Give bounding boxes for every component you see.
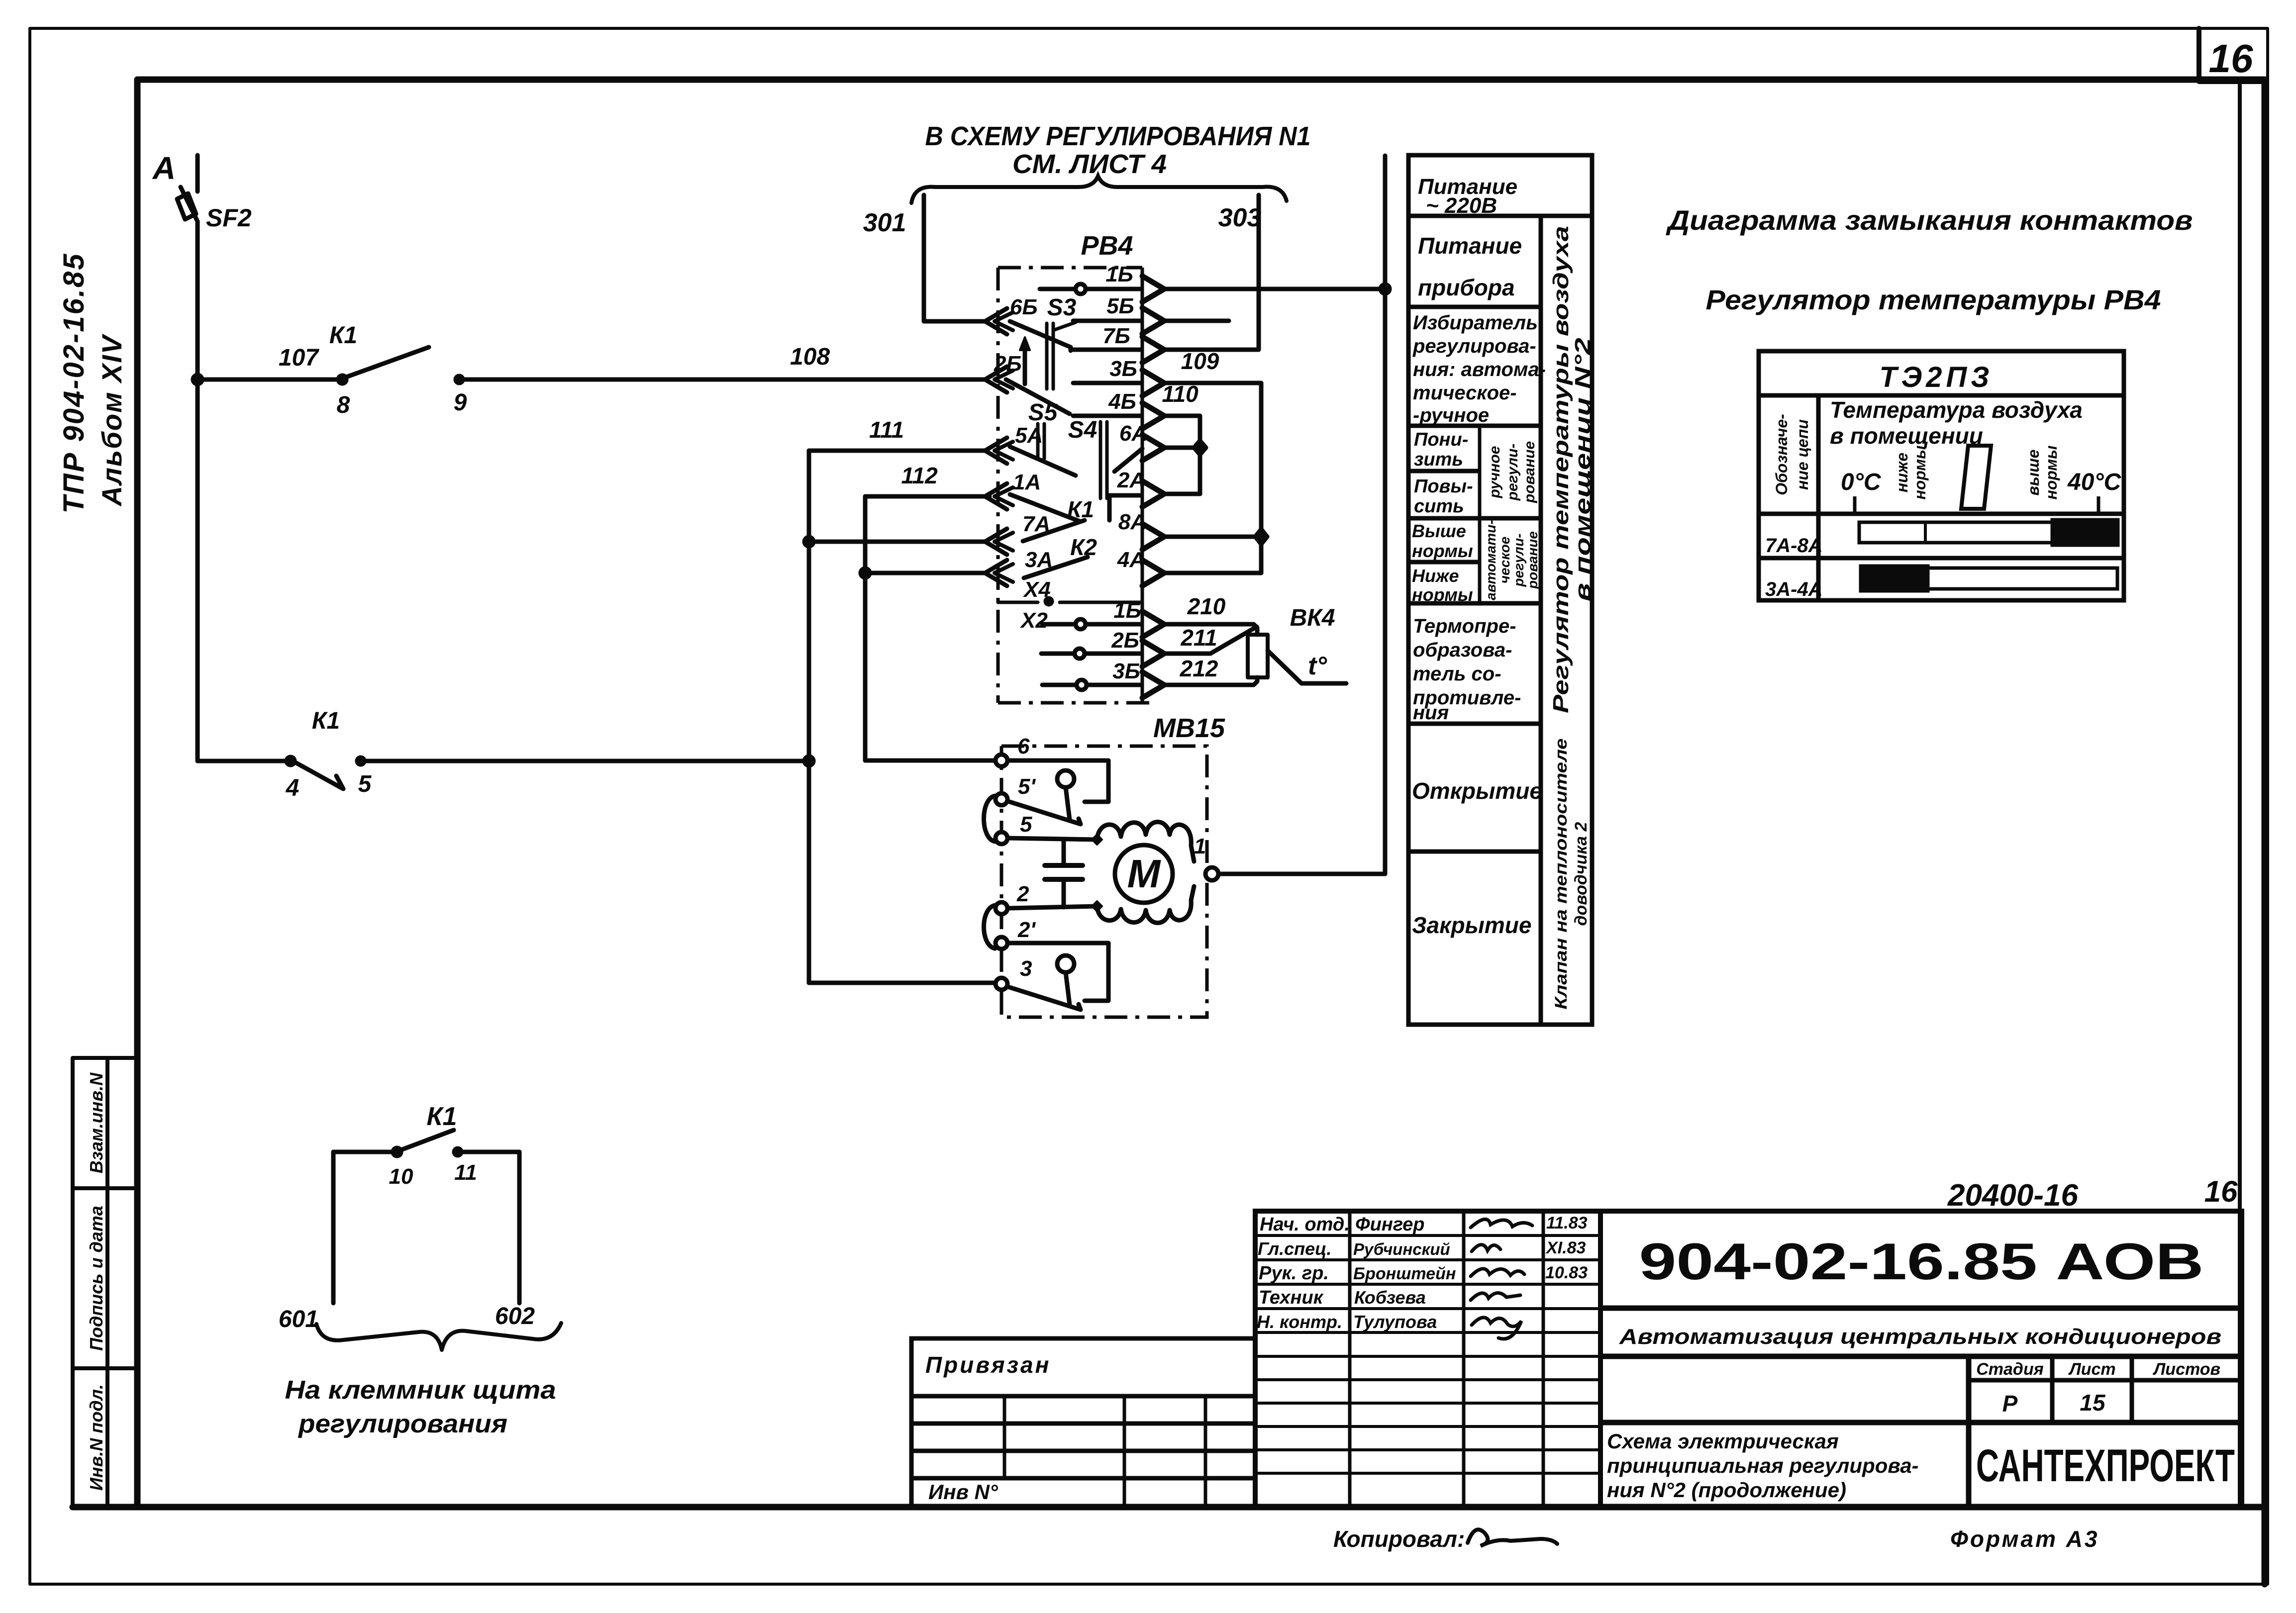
svg-text:ниже: ниже [1893, 453, 1911, 492]
svg-text:Н. контр.: Н. контр. [1257, 1312, 1342, 1332]
svg-text:301: 301 [863, 208, 906, 237]
svg-text:Тулупова: Тулупова [1353, 1312, 1437, 1332]
wire to motor terminal 3 [809, 981, 995, 985]
stub wire from pin 5Б [1162, 319, 1229, 323]
contact 7А-8А closure bar [1859, 522, 2053, 543]
node: bus A / wire 7А [804, 537, 813, 546]
svg-text:Автоматизация центральных кон: Автоматизация центральных кондиционеров [1619, 1325, 2221, 1349]
node: 109 bus / wire 8А [1255, 529, 1267, 544]
brace under header [911, 176, 1287, 203]
svg-text:Листов: Листов [2152, 1360, 2220, 1379]
wire 3А [865, 571, 987, 575]
switch S4 link bars [1099, 422, 1102, 498]
wire 108 [459, 378, 987, 382]
terminal 2' [996, 937, 1007, 949]
svg-text:рование: рование [1521, 441, 1538, 503]
svg-text:8: 8 [337, 392, 350, 418]
svg-text:1Б: 1Б [1105, 262, 1133, 286]
terminal 3 [996, 978, 1007, 990]
pin 8А [1142, 524, 1164, 550]
breaker SF2 [181, 187, 198, 221]
pin 6Б [985, 308, 1007, 334]
limit switch upper (open-valve) [1007, 760, 1108, 802]
limit switch lower arm [1008, 987, 1081, 1010]
svg-text:регулирования: регулирования [298, 1410, 507, 1438]
svg-text:3А: 3А [1025, 548, 1053, 572]
switch S5 link bars [1036, 424, 1040, 459]
svg-text:Копировал:: Копировал: [1333, 1526, 1465, 1552]
node: bus A / wire 4-5 [804, 757, 813, 765]
svg-text:автомати-: автомати- [1483, 520, 1498, 600]
switch S3 link bars [1045, 323, 1049, 389]
svg-text:11: 11 [454, 1160, 477, 1185]
wire 110 from pin 4Б [1162, 416, 1200, 494]
node A marker [196, 155, 200, 191]
svg-text:20400-16: 20400-16 [1947, 1178, 2079, 1213]
wire 303 vertical [1257, 195, 1261, 350]
svg-text:3Б: 3Б [1109, 357, 1137, 381]
wire 301 vertical [922, 195, 926, 321]
svg-text:ние цепи: ние цепи [1794, 419, 1811, 490]
svg-text:3Б: 3Б [1112, 659, 1140, 683]
wire 7А [809, 540, 987, 544]
contact 3А-4А closure bar [1861, 567, 1927, 590]
switch S3 arm (2Б-4Б) [1006, 380, 1070, 414]
svg-text:Фингер: Фингер [1355, 1214, 1425, 1235]
РВ4 enclosure (dash-dot box) [998, 268, 1149, 703]
svg-text:Техник: Техник [1259, 1287, 1324, 1308]
svg-text:212: 212 [1180, 656, 1218, 681]
svg-text:ручное: ручное [1487, 446, 1503, 499]
svg-text:9: 9 [454, 389, 467, 416]
svg-text:Температура воздуха: Температура воздуха [1830, 397, 2083, 423]
svg-text:К2: К2 [1070, 534, 1097, 560]
svg-text:тель со-: тель со- [1413, 663, 1501, 685]
svg-text:Регулятор температуры воздуха: Регулятор температуры воздуха [1549, 226, 1573, 713]
svg-text:10.83: 10.83 [1545, 1263, 1588, 1282]
bus A vertical (wires 111/7А/3) [807, 451, 811, 983]
svg-text:1: 1 [1194, 834, 1206, 858]
svg-text:210: 210 [1187, 593, 1226, 619]
svg-text:нормы: нормы [2042, 446, 2060, 500]
pin X2-2Б [1041, 652, 1074, 656]
svg-text:112: 112 [901, 463, 938, 488]
node: 110 bus / wire 6А [1194, 441, 1206, 455]
0°С tick [1853, 496, 1857, 512]
signature table columns [1348, 1211, 1352, 1507]
svg-text:принципиальная регулирова-: принципиальная регулирова- [1607, 1454, 1919, 1477]
wire 602 riser [517, 1152, 522, 1303]
svg-text:S4: S4 [1068, 417, 1098, 443]
thermistor BK4 [1248, 635, 1268, 677]
svg-text:Нач. отд.: Нач. отд. [1260, 1214, 1350, 1235]
svg-text:5': 5' [1018, 774, 1036, 799]
signal table (right side) [1408, 155, 1592, 1025]
thermistor t° lead [1268, 651, 1346, 683]
wire to contact [333, 1150, 393, 1154]
pin X2-3Б [1042, 683, 1076, 687]
svg-text:зить: зить [1414, 449, 1463, 470]
svg-text:нормы: нормы [1412, 541, 1473, 561]
svg-text:7А: 7А [1022, 512, 1050, 536]
wire 107 [198, 378, 338, 382]
svg-text:К1: К1 [329, 322, 357, 349]
wire 8А [1162, 535, 1261, 539]
svg-text:2А: 2А [1117, 468, 1145, 492]
setpoint parallelogram [1961, 446, 1991, 509]
switch S5 arm (5А) [1010, 447, 1076, 475]
pin 1Б (top) [1040, 287, 1075, 291]
svg-text:М: М [1127, 852, 1162, 896]
wire 112 to pin 1А [865, 494, 990, 499]
svg-text:На клеммник щита: На клеммник щита [285, 1376, 556, 1405]
terminal 5 [996, 832, 1007, 844]
svg-text:САНТЕХПРОЕКТ: САНТЕХПРОЕКТ [1976, 1440, 2235, 1491]
switch arm (1А-2А) [1010, 494, 1080, 521]
svg-text:Взам.инв.N: Взам.инв.N [86, 1072, 106, 1174]
pin 3А [985, 560, 1007, 586]
svg-text:~ 220В: ~ 220В [1426, 193, 1497, 218]
svg-text:4А: 4А [1117, 548, 1145, 572]
svg-text:в помещении: в помещении [1830, 423, 1983, 449]
svg-text:К1: К1 [1067, 496, 1094, 522]
svg-text:7Б: 7Б [1102, 324, 1130, 348]
pin X2-1Б [1042, 622, 1075, 627]
svg-text:прибора: прибора [1418, 275, 1515, 300]
wire to motor terminal 6 [865, 759, 996, 763]
wire 210 [1164, 624, 1257, 635]
svg-text:ния N°2 (продолжение): ния N°2 (продолжение) [1607, 1478, 1846, 1502]
wire 2А [1162, 492, 1200, 496]
svg-text:S3: S3 [1047, 294, 1077, 321]
svg-text:Повы-: Повы- [1414, 476, 1473, 497]
svg-text:Ниже: Ниже [1412, 566, 1459, 586]
svg-text:К1: К1 [427, 1102, 457, 1131]
inner right margin line [2238, 82, 2242, 1507]
svg-text:S5: S5 [1028, 399, 1058, 426]
svg-text:регули-: регули- [1511, 533, 1526, 587]
terminal 6 [996, 755, 1007, 766]
svg-text:Регулятор температуры РВ4: Регулятор температуры РВ4 [1706, 284, 2161, 315]
svg-text:8А: 8А [1118, 510, 1146, 534]
svg-text:ния: автома-: ния: автома- [1413, 359, 1546, 380]
pin 2Б [985, 367, 1007, 392]
svg-text:доводчика 2: доводчика 2 [1572, 822, 1591, 926]
closure diagram table ТЭ2ПЗ [1759, 351, 2124, 600]
svg-text:Лист: Лист [2068, 1360, 2115, 1379]
svg-text:-ручное: -ручное [1413, 404, 1489, 426]
winding tap diamonds [1092, 835, 1102, 845]
svg-text:Гл.спец.: Гл.спец. [1258, 1238, 1331, 1259]
svg-text:Кобзева: Кобзева [1354, 1287, 1426, 1308]
wire 6А [1162, 446, 1200, 450]
pin 7А [985, 529, 1007, 555]
РВ4 connector right spine [1141, 268, 1144, 703]
limit switch upper arm [1008, 801, 1081, 824]
svg-text:нормы: нормы [1412, 584, 1473, 605]
wire 111 to pin 5А [809, 449, 987, 453]
svg-text:10: 10 [389, 1164, 413, 1189]
pin 2А [1142, 481, 1164, 507]
svg-text:тическое-: тическое- [1413, 382, 1517, 404]
svg-text:регулирова-: регулирова- [1412, 335, 1536, 357]
svg-text:3: 3 [1020, 956, 1032, 981]
wire 212 [1164, 677, 1257, 685]
pin 4Б [1073, 414, 1140, 418]
wire from motor terminal 1 to 220V bus [1218, 872, 1385, 876]
pin 7Б [1071, 348, 1140, 352]
signature table rows [1255, 1234, 1600, 1237]
selector direction arrow [1023, 346, 1027, 384]
svg-text:ния: ния [1413, 702, 1449, 724]
svg-text:2Б: 2Б [994, 352, 1022, 376]
wire from contact 5 to bus A [361, 759, 809, 763]
svg-text:В СХЕМУ РЕГУЛИРОВАНИЯ N1: В СХЕМУ РЕГУЛИРОВАНИЯ N1 [925, 121, 1311, 151]
switch S4 arm (6А) [1114, 449, 1142, 472]
svg-text:2': 2' [1017, 918, 1036, 942]
motor M winding top [1097, 822, 1194, 862]
title block [1255, 1211, 2242, 1507]
svg-text:Закрытие: Закрытие [1412, 912, 1531, 938]
svg-text:МВ15: МВ15 [1153, 713, 1225, 743]
pin 5Б [1073, 319, 1140, 323]
pin 1А [985, 483, 1007, 509]
svg-text:15: 15 [2080, 1390, 2106, 1416]
svg-text:Рук. гр.: Рук. гр. [1259, 1263, 1329, 1284]
svg-text:сить: сить [1414, 496, 1464, 517]
220V bus vertical [1383, 156, 1388, 874]
svg-text:602: 602 [495, 1303, 535, 1329]
signature squiggles [1471, 1219, 1532, 1339]
wire from pin 7Б [1162, 348, 1259, 352]
svg-text:211: 211 [1180, 625, 1217, 651]
svg-text:111: 111 [869, 417, 904, 443]
svg-text:Р: Р [2002, 1391, 2018, 1417]
svg-text:Подпись и дата: Подпись и дата [86, 1206, 106, 1351]
contact K1 (8-9) [338, 376, 346, 383]
svg-text:303: 303 [1218, 203, 1262, 232]
svg-text:СМ. ЛИСТ 4: СМ. ЛИСТ 4 [1012, 149, 1167, 179]
svg-text:2: 2 [1016, 882, 1029, 906]
svg-text:Х2: Х2 [1019, 608, 1048, 633]
svg-text:6А: 6А [1119, 421, 1147, 446]
svg-text:Стадия: Стадия [1976, 1360, 2044, 1379]
svg-text:t°: t° [1308, 652, 1327, 680]
svg-text:Обозначе-: Обозначе- [1773, 414, 1791, 495]
svg-text:образова-: образова- [1413, 639, 1512, 661]
node: 220V bus / wire 1Б [1381, 285, 1390, 293]
lamp lower [1057, 955, 1074, 972]
svg-text:Бронштейн: Бронштейн [1353, 1264, 1456, 1283]
svg-text:Альбом XIV: Альбом XIV [96, 333, 127, 507]
svg-text:SF2: SF2 [206, 204, 252, 232]
svg-text:1Б: 1Б [1113, 598, 1141, 623]
pin 3Б [1073, 381, 1140, 385]
svg-text:Выше: Выше [1412, 521, 1466, 541]
svg-text:Привязан: Привязан [925, 1352, 1051, 1378]
svg-text:в помещении N°2: в помещении N°2 [1571, 337, 1595, 601]
contact K1 arm (7А-8А) [1023, 520, 1085, 541]
svg-text:выше: выше [2024, 450, 2042, 496]
contact K1 (4-5) [287, 757, 295, 765]
svg-text:A: A [152, 150, 176, 186]
svg-text:110: 110 [1162, 381, 1198, 407]
svg-text:5Б: 5Б [1106, 294, 1134, 318]
motor M body [1115, 845, 1173, 903]
node: junction of feeder and wire 107 [193, 375, 202, 384]
page number box top right [2199, 28, 2265, 82]
svg-text:нормы: нормы [1911, 446, 1929, 500]
svg-text:16: 16 [2209, 36, 2253, 81]
svg-text:Термопре-: Термопре- [1413, 615, 1516, 637]
svg-text:7А-8А: 7А-8А [1765, 535, 1823, 557]
wire: SF2 vertical feeder [196, 221, 200, 761]
svg-text:3А-4А: 3А-4А [1765, 578, 1823, 600]
pin 6А [1142, 435, 1164, 461]
svg-text:107: 107 [279, 345, 319, 371]
wire terminal 2 to motor winding [1007, 906, 1097, 908]
motor terminal 1 [1205, 867, 1218, 880]
svg-text:ТПР 904-02-16.85: ТПР 904-02-16.85 [58, 253, 90, 514]
bottom-left: contact K1 (10-11) to terminal strip [316, 1130, 561, 1350]
svg-text:ческое: ческое [1497, 537, 1512, 584]
wire 109 from pin 3Б [1162, 383, 1261, 573]
svg-text:Диаграмма замыкания контакто: Диаграмма замыкания контактов [1666, 204, 2193, 236]
svg-text:Инв.N подл.: Инв.N подл. [86, 1384, 106, 1491]
switch S3 arm (6Б-7Б) [1010, 321, 1071, 351]
svg-text:4: 4 [286, 775, 299, 801]
svg-text:1А: 1А [1013, 470, 1041, 494]
svg-text:11.83: 11.83 [1546, 1214, 1588, 1233]
plug bracket 5'-5 [984, 796, 996, 842]
svg-text:5: 5 [358, 771, 372, 797]
plug bracket 2-2' [984, 905, 996, 949]
svg-text:Клапан на теплоносителе: Клапан на теплоносителе [1552, 739, 1571, 1010]
contact K1 (10-11) [393, 1148, 401, 1156]
svg-text:РВ4: РВ4 [1081, 231, 1133, 261]
node: bus B / wire 3А [861, 569, 870, 577]
pin 4А [1142, 560, 1164, 586]
svg-text:6: 6 [1017, 734, 1030, 759]
wire from pin 1Б to 220V bus [1162, 287, 1385, 291]
МВ15 enclosure (dash-dot box) [1001, 746, 1207, 1017]
svg-text:Избиратель: Избиратель [1413, 312, 1538, 334]
svg-text:16: 16 [2204, 1175, 2238, 1208]
wire 4А [1162, 571, 1261, 575]
svg-text:108: 108 [790, 344, 830, 370]
wire to 602 riser [458, 1150, 519, 1154]
svg-text:Питание: Питание [1418, 233, 1522, 259]
svg-text:ВК4: ВК4 [1290, 605, 1335, 631]
annex box Привязан [911, 1338, 1255, 1507]
svg-text:4Б: 4Б [1108, 389, 1136, 414]
wire terminal 5 to motor winding [1007, 838, 1097, 840]
wire 601 riser [331, 1152, 336, 1303]
svg-text:XI.83: XI.83 [1545, 1238, 1586, 1257]
contact K2 arm (3А-4А) [1024, 557, 1088, 578]
svg-text:601: 601 [279, 1306, 318, 1332]
svg-text:2Б: 2Б [1111, 628, 1139, 653]
svg-text:Рубчинский: Рубчинский [1353, 1240, 1450, 1258]
designation box row lines [1600, 1306, 2242, 1311]
copier signature [1468, 1529, 1557, 1546]
svg-text:Открытие: Открытие [1412, 778, 1542, 804]
svg-text:5: 5 [1020, 812, 1032, 837]
sidebar column lines (bottom-left) [73, 1058, 137, 1507]
svg-text:К1: К1 [312, 708, 340, 734]
terminal 2 [996, 902, 1007, 914]
svg-text:0°С: 0°С [1841, 469, 1882, 495]
terminal 5' [996, 793, 1007, 805]
svg-text:6Б: 6Б [1010, 295, 1038, 319]
svg-text:Схема электрическая: Схема электрическая [1607, 1429, 1839, 1453]
brace to terminal strip [316, 1323, 561, 1350]
lamp upper [1057, 770, 1074, 787]
connector X4 separator [998, 601, 1142, 604]
wire 211 [1164, 627, 1257, 654]
bus B vertical (wires 112/3А/6) [863, 496, 868, 760]
svg-text:Формат А3: Формат А3 [1950, 1526, 2099, 1552]
svg-text:109: 109 [1181, 348, 1219, 374]
svg-text:5А: 5А [1015, 423, 1043, 448]
wire to pin 6Б [924, 319, 987, 324]
limit switch lower (close-valve) [1007, 943, 1108, 1001]
svg-text:904-02-16.85 АОВ: 904-02-16.85 АОВ [1639, 1233, 2204, 1291]
wire: feeder elbow to contact K1 (4-5) [198, 759, 287, 763]
motor M winding bottom [1097, 886, 1194, 923]
svg-text:ТЭ2ПЗ: ТЭ2ПЗ [1879, 361, 1993, 393]
pin 5А [985, 438, 1007, 464]
svg-text:Инв N°: Инв N° [928, 1480, 998, 1504]
svg-text:40°С: 40°С [2067, 469, 2122, 495]
svg-text:Пони-: Пони- [1414, 429, 1468, 450]
svg-text:рование: рование [1525, 531, 1540, 589]
svg-text:Х4: Х4 [1022, 577, 1051, 602]
svg-text:регули-: регули- [1504, 444, 1521, 501]
capacitor C [1062, 840, 1066, 865]
40°С tick [2097, 496, 2100, 512]
